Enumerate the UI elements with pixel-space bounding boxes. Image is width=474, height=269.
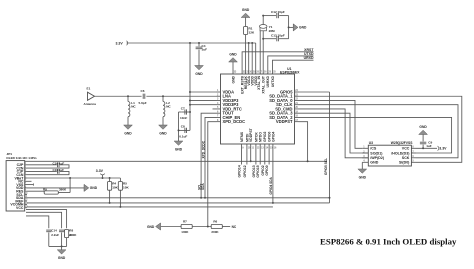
flash memory U3 W25Q32FVSS body bbox=[368, 145, 411, 166]
ground above C9 bbox=[422, 135, 424, 142]
svg-text:C8: C8 bbox=[181, 125, 185, 129]
wire crystal right rail bbox=[288, 16, 290, 39]
wire net GPIO0 bbox=[268, 144, 270, 165]
U1 right pin 22 SD_DATA_0 bbox=[295, 99, 299, 101]
capacitor C7 bbox=[181, 111, 190, 113]
JP1 pin 2 C2N bbox=[25, 167, 27, 169]
U1 right pin 21 SD_CLK bbox=[295, 104, 299, 106]
ground arrow R7 bbox=[156, 223, 161, 230]
U1 left pin 2 LNA bbox=[217, 95, 221, 97]
JP1 pin 13 VCOMH bbox=[25, 203, 27, 205]
capacitor C13 bbox=[263, 38, 276, 40]
U1 left pin 5 VDD_RTC bbox=[217, 108, 221, 110]
wire SDA row bbox=[27, 197, 330, 199]
svg-text:10K: 10K bbox=[112, 185, 118, 189]
JP1 pin 5 VBaT bbox=[25, 177, 27, 179]
JP1 pin 8 VDD bbox=[25, 187, 27, 189]
wire R7 to node bbox=[192, 226, 211, 228]
resistor R9 bbox=[44, 191, 58, 194]
wire net GPIO2 bbox=[264, 144, 266, 165]
U1 right pin 18 SD_DATA_2 bbox=[295, 116, 299, 118]
U1 right pin 23 SD_DATA_1 bbox=[295, 95, 299, 97]
svg-text:100K: 100K bbox=[181, 230, 189, 234]
svg-text:0.1uF: 0.1uF bbox=[179, 134, 187, 138]
capacitor C4 bbox=[198, 43, 200, 46]
wire R9 to VBAT bbox=[58, 192, 70, 194]
svg-text:C11 1uF: C11 1uF bbox=[53, 168, 65, 172]
wire VDD_RTC stub bbox=[213, 108, 217, 110]
resistor R7 bbox=[181, 224, 192, 228]
svg-text:NC: NC bbox=[131, 105, 136, 109]
wire gnd to R7 bbox=[161, 226, 181, 228]
svg-text:12K: 12K bbox=[249, 30, 255, 34]
svg-text:E1: E1 bbox=[87, 87, 91, 91]
svg-text:390K: 390K bbox=[59, 187, 67, 191]
connector JP1 OLED body bbox=[6, 161, 25, 211]
wire VDDA left bbox=[190, 91, 217, 93]
U3 right pin 8 VCC bbox=[411, 147, 416, 149]
capacitor C8 bbox=[179, 129, 191, 131]
svg-text:Antenna: Antenna bbox=[84, 102, 97, 106]
ground below U3 bbox=[361, 162, 363, 169]
svg-text:GND: GND bbox=[90, 186, 98, 190]
ground right of crystal bbox=[289, 26, 294, 28]
capacitor C10 bbox=[27, 164, 57, 166]
inductor L1 bbox=[127, 96, 129, 101]
svg-text:200K: 200K bbox=[211, 230, 219, 234]
svg-text:/CS: /CS bbox=[370, 147, 377, 151]
wire CHIP_EN down bbox=[205, 117, 217, 197]
wire SD_CMD to flash WP bbox=[299, 109, 369, 158]
U3 right pin 6 SCK bbox=[411, 157, 416, 159]
capacitor C9 bbox=[416, 147, 437, 149]
wire VSS stub bbox=[27, 184, 34, 186]
svg-text:U3: U3 bbox=[369, 141, 373, 145]
JP1 pin 6 NC bbox=[25, 180, 27, 182]
svg-text:GND: GND bbox=[147, 225, 155, 229]
svg-text:C13 10pF: C13 10pF bbox=[271, 33, 285, 37]
svg-text:VDDPST: VDDPST bbox=[249, 127, 253, 142]
resistor R5 bbox=[119, 178, 121, 182]
JP1 pin 3 C1P bbox=[25, 170, 27, 172]
svg-text:SDA: SDA bbox=[201, 183, 205, 190]
svg-text:XPD_DCDC: XPD_DCDC bbox=[223, 119, 246, 124]
U1 left pin 3 VDD3P3 bbox=[217, 99, 221, 101]
svg-text:3.3V: 3.3V bbox=[116, 41, 124, 45]
svg-text:SCK: SCK bbox=[402, 156, 410, 160]
ground bottom caps bbox=[61, 246, 63, 249]
U1 right pin 19 SD_DATA_3 bbox=[295, 112, 299, 114]
wire power vertical feed bbox=[189, 43, 191, 130]
svg-text:VCC: VCC bbox=[16, 206, 24, 210]
svg-text:C6: C6 bbox=[141, 89, 145, 93]
capacitor C11 bbox=[27, 170, 57, 172]
wire 3.3V rail bbox=[127, 42, 256, 44]
wire GPIO5 right bbox=[299, 91, 330, 93]
inductor L2 bbox=[162, 96, 164, 101]
JP1 pin 9 RES bbox=[25, 190, 27, 192]
svg-text:GPIO4 SDA: GPIO4 SDA bbox=[269, 176, 273, 194]
resistor R4 bbox=[109, 178, 111, 182]
svg-text:26M: 26M bbox=[269, 29, 275, 33]
ground below L2 bbox=[162, 117, 164, 125]
wire SD_CLK loop to flash SCK bbox=[299, 105, 459, 158]
svg-text:C12 10pF: C12 10pF bbox=[271, 10, 285, 14]
svg-text:3.3V: 3.3V bbox=[96, 169, 104, 173]
wire RF line antenna to LNA bbox=[95, 95, 142, 97]
wire net GPIO15 bbox=[259, 144, 261, 165]
resistor R1 bbox=[245, 18, 247, 27]
U1 right pin 20 SD_CMD bbox=[295, 108, 299, 110]
U1 right pin 24 GPIO5 bbox=[295, 91, 299, 93]
svg-text:W25Q32FVSS: W25Q32FVSS bbox=[391, 141, 413, 145]
svg-text:MTMS: MTMS bbox=[240, 131, 244, 142]
svg-text:MTDO: MTDO bbox=[259, 132, 263, 142]
svg-text:/WP(D2): /WP(D2) bbox=[370, 156, 385, 160]
U3 left pin 3 /WP(D2) bbox=[362, 157, 368, 159]
svg-text:XPD_DCDC: XPD_DCDC bbox=[202, 140, 206, 158]
U3 right pin 7 /HOLD(D3) bbox=[411, 152, 416, 154]
svg-text:GND: GND bbox=[124, 131, 132, 135]
wire VDDPST right to H1 bbox=[299, 122, 308, 162]
wire R5 to VCC net bbox=[119, 190, 121, 207]
crystal Y1 bbox=[262, 16, 264, 25]
ground VDD row bbox=[84, 184, 89, 191]
svg-text:U0TXD: U0TXD bbox=[271, 75, 275, 87]
svg-text:10K: 10K bbox=[123, 185, 129, 189]
wire NC stub bbox=[27, 180, 32, 182]
wire caps bottom bus bbox=[49, 245, 67, 247]
U1 right pin 17 VDDPST bbox=[295, 121, 299, 123]
svg-text:3.3V: 3.3V bbox=[439, 147, 447, 151]
U3 left pin 4 GND bbox=[362, 161, 368, 163]
wire SD_DATA_3 to flash SO bbox=[299, 113, 369, 153]
svg-text:OLED 0.91 I2C 14Pin: OLED 0.91 I2C 14Pin bbox=[6, 156, 36, 160]
power port 3.3V pullups bbox=[102, 175, 104, 178]
U1 left pin 6 TOUT bbox=[217, 112, 221, 114]
svg-text:GND: GND bbox=[359, 175, 367, 179]
svg-text:10nF: 10nF bbox=[180, 116, 187, 120]
wire R6 to NC bbox=[222, 226, 230, 228]
wire SD_DATA_0 to flash CS bbox=[299, 100, 363, 148]
svg-text:GPIO5 SCL: GPIO5 SCL bbox=[324, 158, 328, 175]
svg-text:GND: GND bbox=[159, 131, 167, 135]
svg-text:5.6pF: 5.6pF bbox=[139, 101, 147, 105]
wire C7 C8 left leg bbox=[178, 112, 180, 141]
wire VDDPST bottom to H1 bbox=[250, 144, 252, 161]
svg-text:C7: C7 bbox=[181, 106, 185, 110]
svg-text:/HOLD(D3): /HOLD(D3) bbox=[391, 151, 410, 155]
op-amp U1 ESP8266EX body bbox=[221, 74, 295, 144]
svg-text:R9: R9 bbox=[43, 187, 47, 191]
wire R1 to RES12K pin bbox=[245, 35, 247, 75]
JP1 pin 12 IREF bbox=[25, 200, 27, 202]
wire SD_DATA_2 loop to flash HOLD bbox=[299, 117, 452, 153]
svg-text:ESP8266 & 0.91 Inch OLED displ: ESP8266 & 0.91 Inch OLED display bbox=[320, 236, 457, 246]
svg-text:GPIO12: GPIO12 bbox=[243, 165, 247, 177]
ground below L1 bbox=[127, 117, 129, 125]
wire net GPIO14 bbox=[241, 144, 243, 165]
wire XPD_DCDC down to divider bbox=[208, 122, 217, 227]
wire R4 to W2 net bbox=[109, 190, 111, 203]
capacitor C14 bbox=[46, 229, 51, 231]
wire W2 row GPIO4 net bbox=[27, 202, 330, 204]
power port 3.3V at flash bbox=[438, 146, 439, 151]
wire net UTXD bbox=[268, 56, 314, 74]
resistor R8 bbox=[65, 230, 69, 238]
wire GPIO4 SDA vertical bbox=[272, 144, 274, 203]
wire VCC cap feed bbox=[26, 212, 62, 228]
U1 left pin 4 VDD3P3 bbox=[217, 104, 221, 106]
svg-text:1uF: 1uF bbox=[426, 144, 432, 148]
svg-text:GPIO0: GPIO0 bbox=[265, 165, 269, 175]
wire TOUT down bbox=[201, 113, 216, 198]
svg-text:SO(D1): SO(D1) bbox=[370, 151, 383, 155]
wire VDD to GND bbox=[27, 187, 84, 189]
svg-text:NC: NC bbox=[232, 225, 237, 229]
svg-text:ESP8266EX: ESP8266EX bbox=[280, 71, 300, 75]
wire VDD3P3 bbox=[190, 99, 217, 101]
wire VBAT to 3.3V bbox=[27, 177, 103, 179]
ground top of U1 bbox=[232, 62, 234, 74]
svg-text:VCC: VCC bbox=[402, 147, 410, 151]
wire net GPIO13 bbox=[255, 144, 257, 165]
svg-text:NC: NC bbox=[166, 105, 171, 109]
ground above R1 bbox=[241, 13, 250, 17]
JP1 pin 11 SDA bbox=[25, 197, 27, 199]
wire VDD3P3 second bbox=[190, 104, 217, 106]
wire R8 feed bbox=[26, 210, 67, 229]
svg-text:VDDPST: VDDPST bbox=[276, 119, 293, 124]
wire crystal left lead down bbox=[259, 31, 261, 74]
svg-text:R7: R7 bbox=[183, 220, 187, 224]
ground below C7 C8 bbox=[174, 141, 183, 145]
U1 left pin 7 CHIP_EN bbox=[217, 116, 221, 118]
JP1 pin 4 C1N bbox=[25, 174, 27, 176]
svg-text:SI(D0): SI(D0) bbox=[399, 161, 410, 165]
U3 left pin 2 SO(D1) bbox=[362, 152, 368, 154]
wire net XRST bbox=[242, 52, 313, 74]
U1 left pin 8 XPD_DCDC bbox=[217, 121, 221, 123]
svg-text:390K: 390K bbox=[69, 233, 77, 237]
resistor R6 bbox=[211, 224, 222, 228]
JP1 pin 10 SCL bbox=[25, 194, 27, 196]
ground below C4 bbox=[198, 50, 200, 66]
svg-text:GND: GND bbox=[195, 72, 203, 76]
wire pullup feed bbox=[103, 177, 121, 179]
wire GPIO5 vertical bbox=[329, 92, 331, 203]
capacitor C12 bbox=[263, 15, 276, 17]
capacitor C15 bbox=[59, 229, 64, 231]
svg-text:GPIO4: GPIO4 bbox=[271, 132, 275, 142]
U1 left pin 1 VDDA bbox=[217, 91, 221, 93]
wire SD_DATA_1 loop to flash SI bbox=[299, 96, 462, 162]
svg-text:GND: GND bbox=[229, 53, 237, 57]
svg-text:GPIO14: GPIO14 bbox=[238, 165, 242, 177]
svg-text:URXD: URXD bbox=[304, 56, 314, 60]
svg-text:XTAL_OUT: XTAL_OUT bbox=[262, 75, 266, 94]
svg-text:GND: GND bbox=[242, 8, 250, 12]
svg-text:GND: GND bbox=[419, 125, 427, 129]
svg-text:GND: GND bbox=[58, 256, 66, 260]
wire H1 VDD distribution bbox=[25, 160, 327, 162]
svg-text:GPIO15: GPIO15 bbox=[256, 165, 260, 177]
capacitor C6 bbox=[142, 94, 144, 99]
svg-text:2.2uF: 2.2uF bbox=[51, 233, 59, 237]
JP1 pin 7 VSS bbox=[25, 184, 27, 186]
wire RES row bbox=[27, 190, 44, 192]
wire net GPIO12 bbox=[246, 144, 248, 165]
svg-text:XTAL_IN: XTAL_IN bbox=[257, 75, 261, 89]
svg-text:GND: GND bbox=[231, 75, 235, 83]
wire crystal right lead down bbox=[262, 31, 264, 74]
JP1 pin 14 VCC bbox=[25, 207, 27, 209]
wire net URXD bbox=[273, 60, 314, 74]
svg-text:C10 1uF: C10 1uF bbox=[53, 161, 65, 165]
svg-text:R6: R6 bbox=[213, 220, 217, 224]
antenna E1 bbox=[88, 92, 95, 100]
svg-text:GND: GND bbox=[175, 147, 183, 151]
svg-text:GND: GND bbox=[299, 26, 307, 30]
wire VCOMH cap feed bbox=[26, 216, 49, 228]
U3 left pin 1 /CS bbox=[362, 147, 368, 149]
svg-text:U0RXD: U0RXD bbox=[266, 75, 270, 87]
U3 right pin 5 SI(D0) bbox=[411, 161, 416, 163]
wire VDDD top pin bbox=[251, 43, 253, 74]
JP1 pin 1 C2P bbox=[25, 164, 27, 166]
wire VCC net bbox=[27, 206, 273, 208]
svg-text:1uF: 1uF bbox=[202, 48, 208, 52]
wire VDDA top pin bbox=[248, 43, 250, 74]
svg-text:GND: GND bbox=[370, 161, 378, 165]
